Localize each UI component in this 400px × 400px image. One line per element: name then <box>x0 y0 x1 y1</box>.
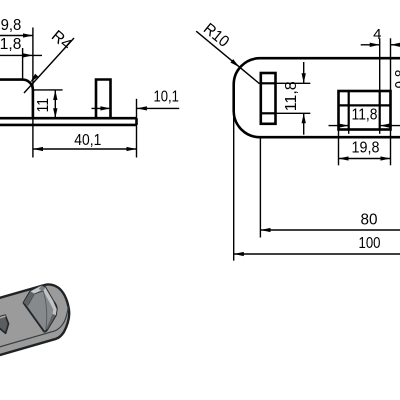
svg-text:19,8: 19,8 <box>0 17 21 34</box>
svg-text:11,8: 11,8 <box>352 107 378 124</box>
svg-text:19,8: 19,8 <box>352 140 380 157</box>
svg-text:11,8: 11,8 <box>283 81 300 111</box>
svg-text:11: 11 <box>35 98 52 113</box>
svg-text:11,8: 11,8 <box>0 36 21 53</box>
svg-text:100: 100 <box>359 235 381 252</box>
svg-text:10,1: 10,1 <box>153 89 179 106</box>
svg-text:9,8: 9,8 <box>393 69 400 88</box>
svg-text:4: 4 <box>373 26 381 43</box>
svg-text:80: 80 <box>361 212 378 229</box>
svg-text:40,1: 40,1 <box>74 132 101 149</box>
